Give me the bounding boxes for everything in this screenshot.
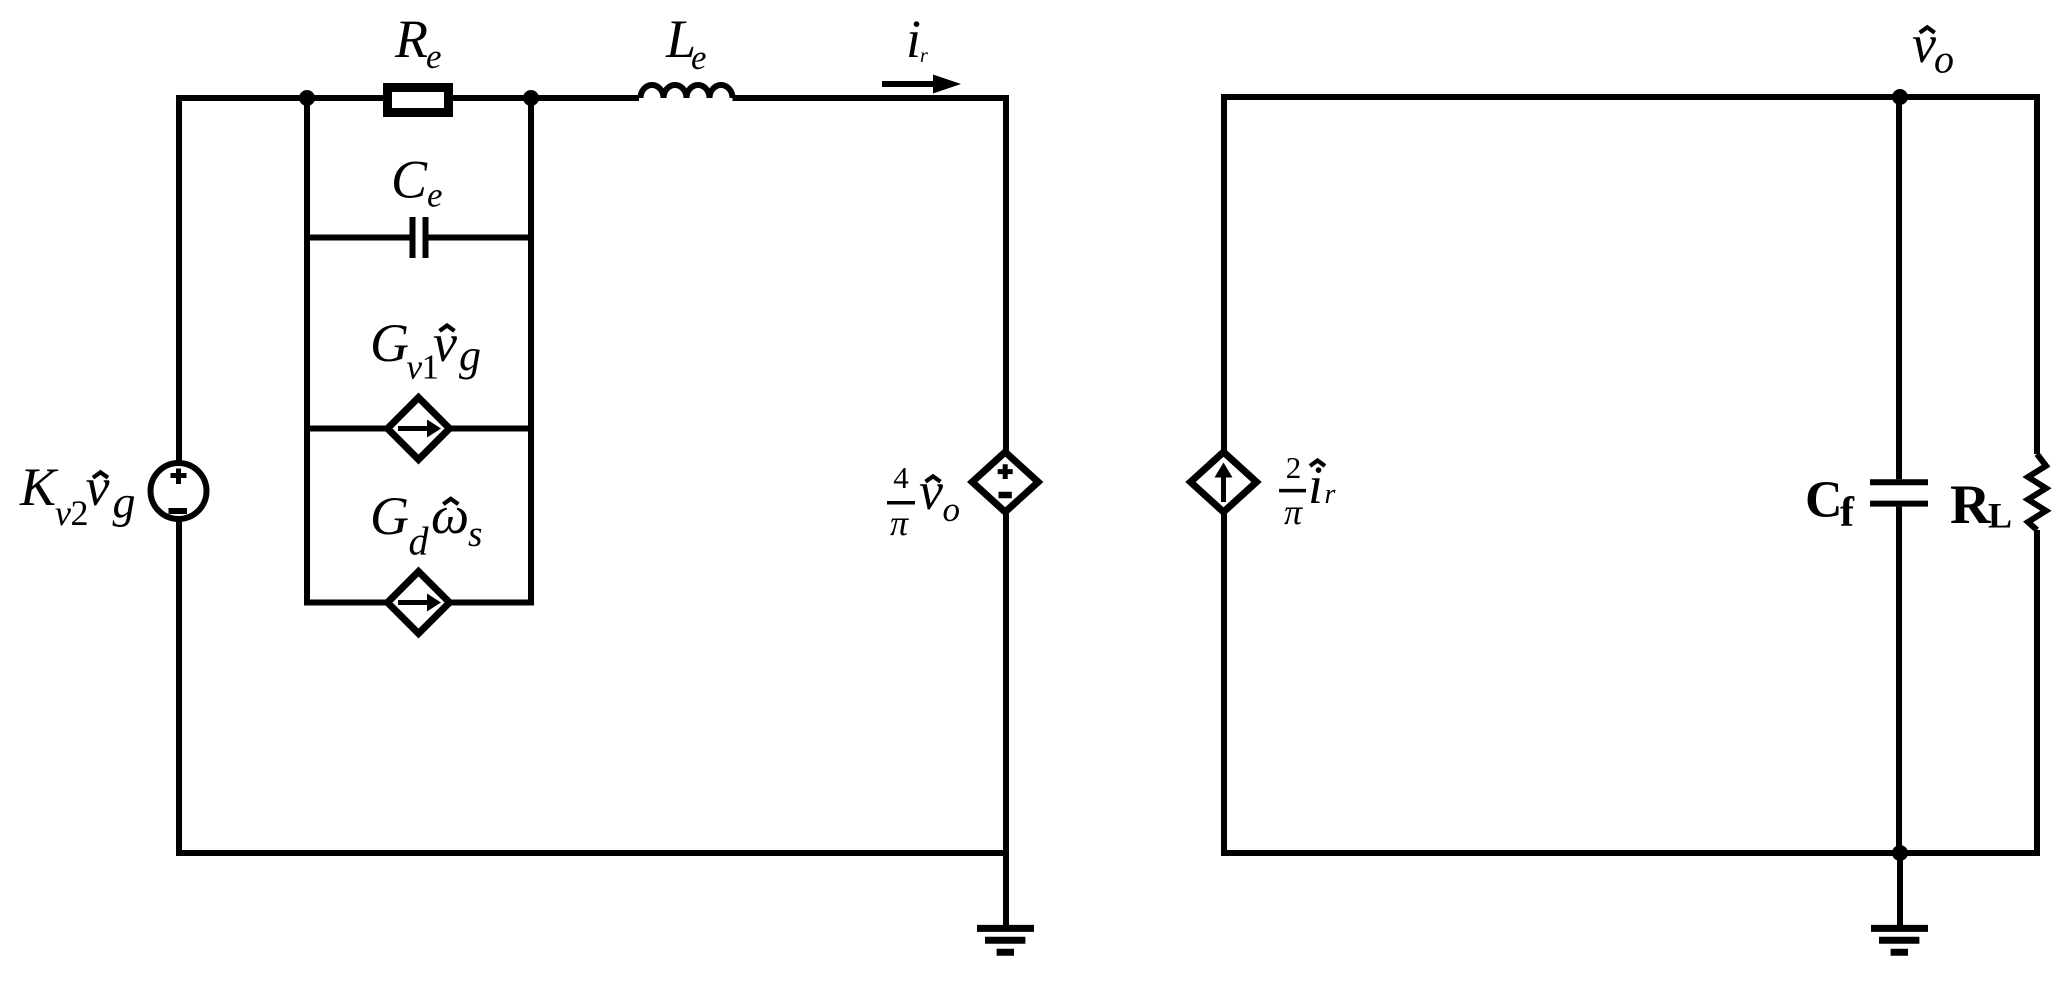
junction node dot (left) <box>299 90 315 106</box>
svg-text:G: G <box>370 486 409 546</box>
svg-text:f: f <box>1840 490 1855 536</box>
wire: inner branch verticals with Gd bottom branch (U shape) <box>307 98 531 603</box>
svg-text:r: r <box>920 45 928 67</box>
ground bars (left loop) <box>977 928 1034 952</box>
node dot vo (top) <box>1892 89 1908 105</box>
svg-text:C: C <box>1805 471 1843 528</box>
wire: Gv1 branch <box>307 426 531 432</box>
ground bars (right loop) <box>1871 928 1928 952</box>
wire: top right segment and right vertical of left loop <box>733 98 1007 853</box>
svg-text:e: e <box>691 38 707 77</box>
wire: left loop bottom <box>176 850 1006 856</box>
ground stem (left loop) <box>1003 853 1009 925</box>
svg-text:g: g <box>113 477 136 528</box>
resistor Re <box>388 88 449 113</box>
wire: left loop top (source to inductor) <box>176 95 639 101</box>
wire: Cf branch upper <box>1896 97 1902 479</box>
svg-text:G: G <box>370 313 409 373</box>
plus sign inside diamond <box>998 464 1013 479</box>
wire: right loop bottom <box>1221 850 2040 856</box>
plus sign inside source <box>171 469 187 485</box>
node dot (bottom, ground) <box>1892 845 1908 861</box>
svg-text:v: v <box>433 313 457 373</box>
voltage source Kv2*vg circle <box>151 463 207 519</box>
svg-text:r: r <box>1325 479 1336 510</box>
inductor Le (4 arcs) <box>641 85 733 98</box>
dependent source diamond Gd <box>388 572 450 634</box>
wire: right loop right vertical lower <box>2034 530 2040 856</box>
svg-text:C: C <box>391 149 428 209</box>
wire: right loop left vertical <box>1221 94 1227 856</box>
svg-text:o: o <box>943 490 961 529</box>
wire: Ce branch left segment <box>307 235 413 241</box>
dependent voltage source diamond 4/pi*vo <box>972 452 1038 512</box>
svg-text:s: s <box>468 514 482 555</box>
up arrow inside diamond <box>1221 476 1226 502</box>
svg-text:ω: ω <box>431 485 469 545</box>
svg-text:4: 4 <box>893 460 909 495</box>
capacitor Cf plates <box>1870 482 1928 503</box>
svg-text:R: R <box>1950 474 1991 536</box>
junction node dot (right) <box>523 90 539 106</box>
ground stem (right loop) <box>1897 853 1903 925</box>
svg-text:π: π <box>890 503 909 543</box>
svg-text:e: e <box>426 37 442 76</box>
svg-text:e: e <box>427 176 443 215</box>
svg-text:π: π <box>1284 492 1303 532</box>
arrow inside Gv1 diamond <box>398 426 429 431</box>
current arrow ir <box>882 81 936 87</box>
dependent current source diamond 2/pi*ir <box>1191 452 1257 512</box>
svg-text:g: g <box>459 331 481 380</box>
minus sign inside diamond <box>999 492 1012 499</box>
svg-text:L: L <box>1988 496 2012 536</box>
wire: right loop right vertical upper <box>2034 94 2040 454</box>
capacitor Ce plates <box>413 217 426 258</box>
svg-text:v: v <box>407 348 423 387</box>
wire: left loop left vertical <box>176 95 182 856</box>
svg-text:v: v <box>55 493 71 533</box>
wire: Cf branch lower <box>1896 507 1902 853</box>
arrow inside Gd diamond <box>398 600 429 605</box>
dependent source diamond Gv1 <box>388 398 450 460</box>
svg-text:d: d <box>409 519 430 564</box>
wire: Ce branch right segment <box>426 235 532 241</box>
svg-text:v: v <box>1912 14 1936 74</box>
svg-text:K: K <box>19 457 59 517</box>
svg-text:R: R <box>394 9 428 69</box>
svg-text:v: v <box>919 461 943 521</box>
wire: right loop top <box>1221 94 2037 100</box>
resistor RL zigzag <box>2028 454 2046 530</box>
minus sign inside source <box>169 508 188 514</box>
svg-text:v: v <box>86 457 110 517</box>
svg-text:i: i <box>906 9 921 69</box>
svg-text:2: 2 <box>1286 450 1302 485</box>
svg-text:o: o <box>1934 37 1954 82</box>
